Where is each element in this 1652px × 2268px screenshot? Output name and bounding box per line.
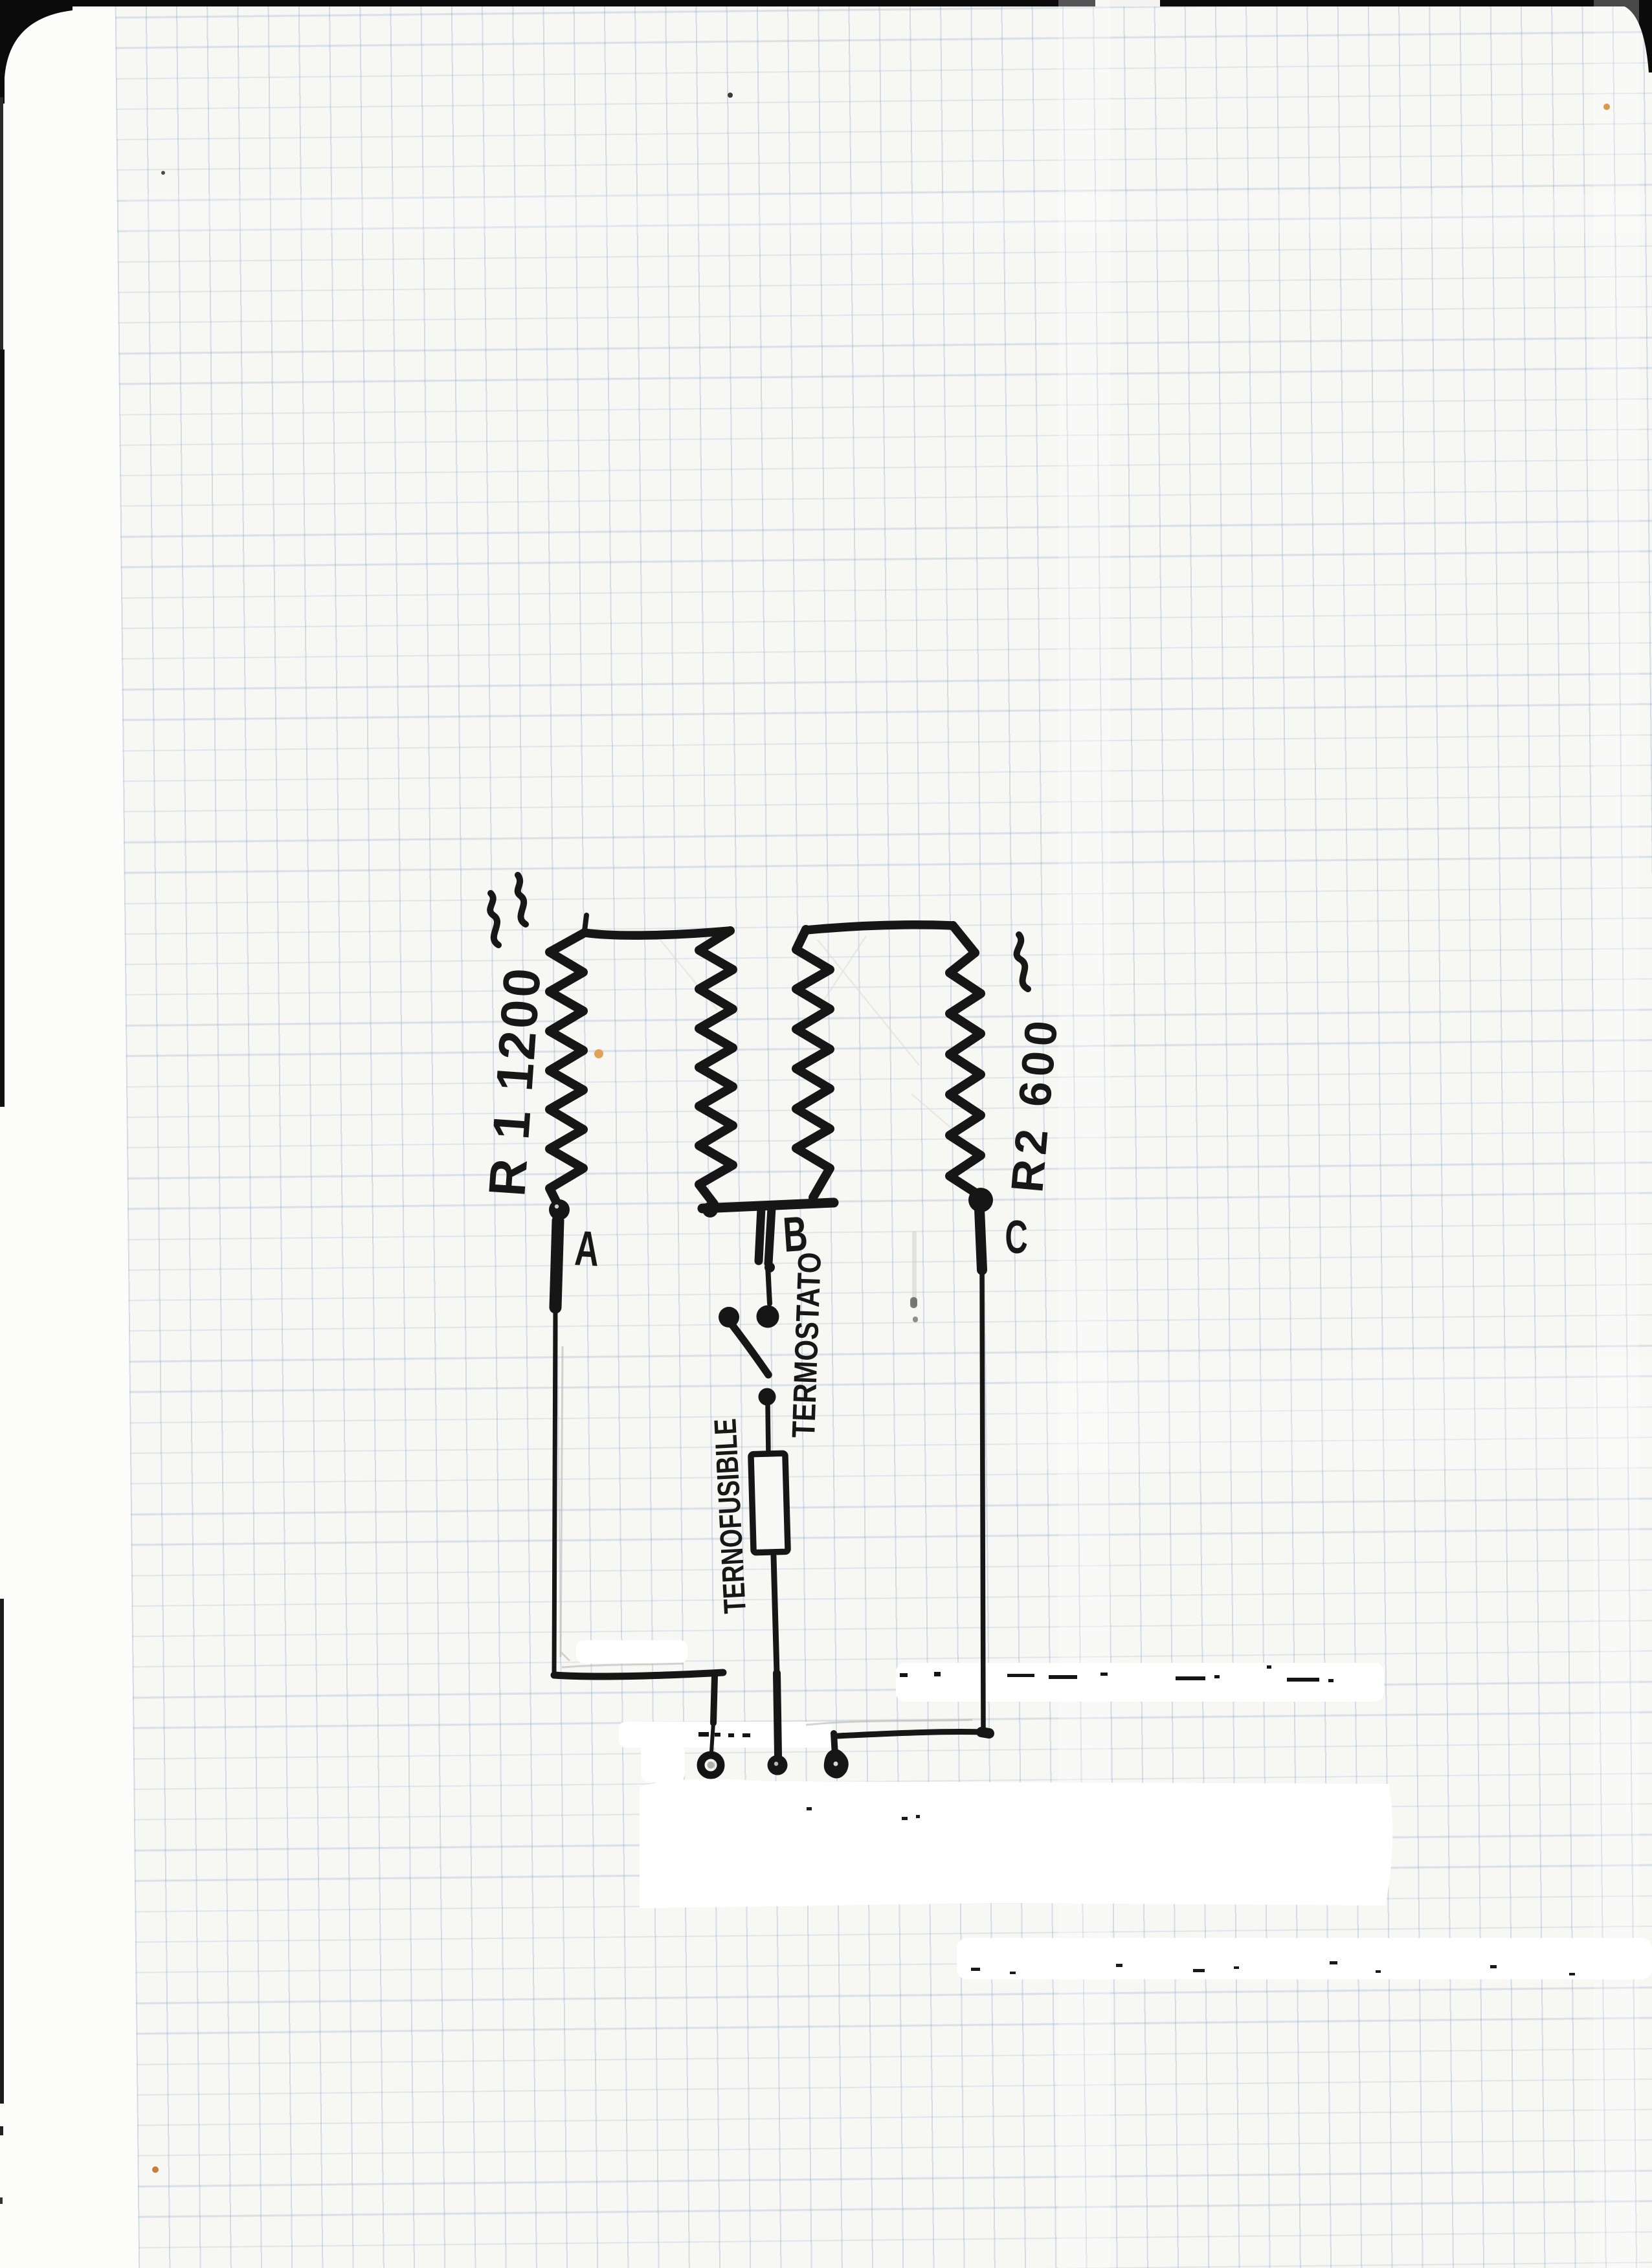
thermofuse body xyxy=(751,1453,788,1552)
svg-text:TERNOFUSIBILE: TERNOFUSIBILE xyxy=(708,1417,753,1614)
svg-text:R2 600: R2 600 xyxy=(1001,1014,1067,1194)
resistor R1 xyxy=(550,933,585,1208)
terminal: left ring xyxy=(701,1755,721,1775)
thermostat contact dot right xyxy=(757,1306,779,1328)
node C xyxy=(968,1188,993,1212)
white-out band over erased right wire xyxy=(896,1663,1384,1702)
remnant dashes of erased wire (right band) xyxy=(900,1665,1334,1682)
wire: drop to ring terminal xyxy=(713,1676,715,1723)
svg-text:TERMOSTATO: TERMOSTATO xyxy=(785,1252,828,1439)
gray smudge right of termostato xyxy=(912,1231,917,1306)
wire: pen tick at left end of top wire xyxy=(585,915,586,931)
scanner black left edge strip xyxy=(0,350,5,1107)
wire: stem below bar to thermostat xyxy=(759,1208,761,1261)
thermostat switch arm xyxy=(732,1325,768,1375)
wire: node A down branch xyxy=(555,1221,558,1307)
scanner black top edge xyxy=(0,0,1652,6)
terminal: right (teardrop) xyxy=(826,1751,847,1776)
wire: bottom left horizontal xyxy=(554,1673,723,1676)
remnant dashes of erased wire (terminal band) xyxy=(698,1732,750,1737)
wire: bar joining the two middle resistor bottoms (node B) xyxy=(702,1203,834,1208)
thermostat lower junction dot xyxy=(759,1388,776,1406)
svg-text:A: A xyxy=(574,1220,601,1276)
white-out band lower right xyxy=(957,1938,1652,1979)
svg-text:C: C xyxy=(1005,1212,1027,1264)
scanner black top-left corner around rounded page corner xyxy=(0,0,73,104)
resistor R2 xyxy=(953,926,975,953)
svg-text:R 1 1200: R 1 1200 xyxy=(478,964,552,1198)
resistor middle-left (heating element section) xyxy=(699,931,733,1204)
paper dirt specks xyxy=(594,1049,603,1058)
wire: top wire joining middle resistor and R2 xyxy=(806,925,953,930)
wire: node C down branch xyxy=(979,1209,982,1270)
big white-out region below terminals xyxy=(640,1779,1392,1908)
white-out band around bottom terminals xyxy=(619,1722,832,1748)
wire: stub above right terminal xyxy=(834,1733,835,1755)
thermostat stem foot dot xyxy=(765,1262,775,1273)
wire: fuse to middle terminal xyxy=(774,1556,777,1673)
wire: top wire joining R1 and middle resistor xyxy=(585,931,730,935)
wire: bottom right horizontal xyxy=(837,1732,981,1736)
faint pencil scratches xyxy=(660,936,987,1159)
scan brightness streaks xyxy=(1058,0,1110,2268)
label R1 tilde xyxy=(490,893,498,945)
terminal: middle xyxy=(768,1755,788,1775)
wire: switch to fuse link xyxy=(768,1405,768,1454)
thermostat contact dot left xyxy=(719,1307,739,1328)
node B bar end dot xyxy=(702,1202,718,1217)
specks in lower white-out bands xyxy=(807,1807,1575,1975)
resistor middle-right (heating element section) xyxy=(796,929,830,1197)
white-out patch left of fuse column xyxy=(576,1640,687,1663)
node A xyxy=(549,1199,570,1220)
label R2 tilde xyxy=(1017,935,1028,989)
scanner black top-right corner around rounded page corner xyxy=(1622,0,1652,72)
